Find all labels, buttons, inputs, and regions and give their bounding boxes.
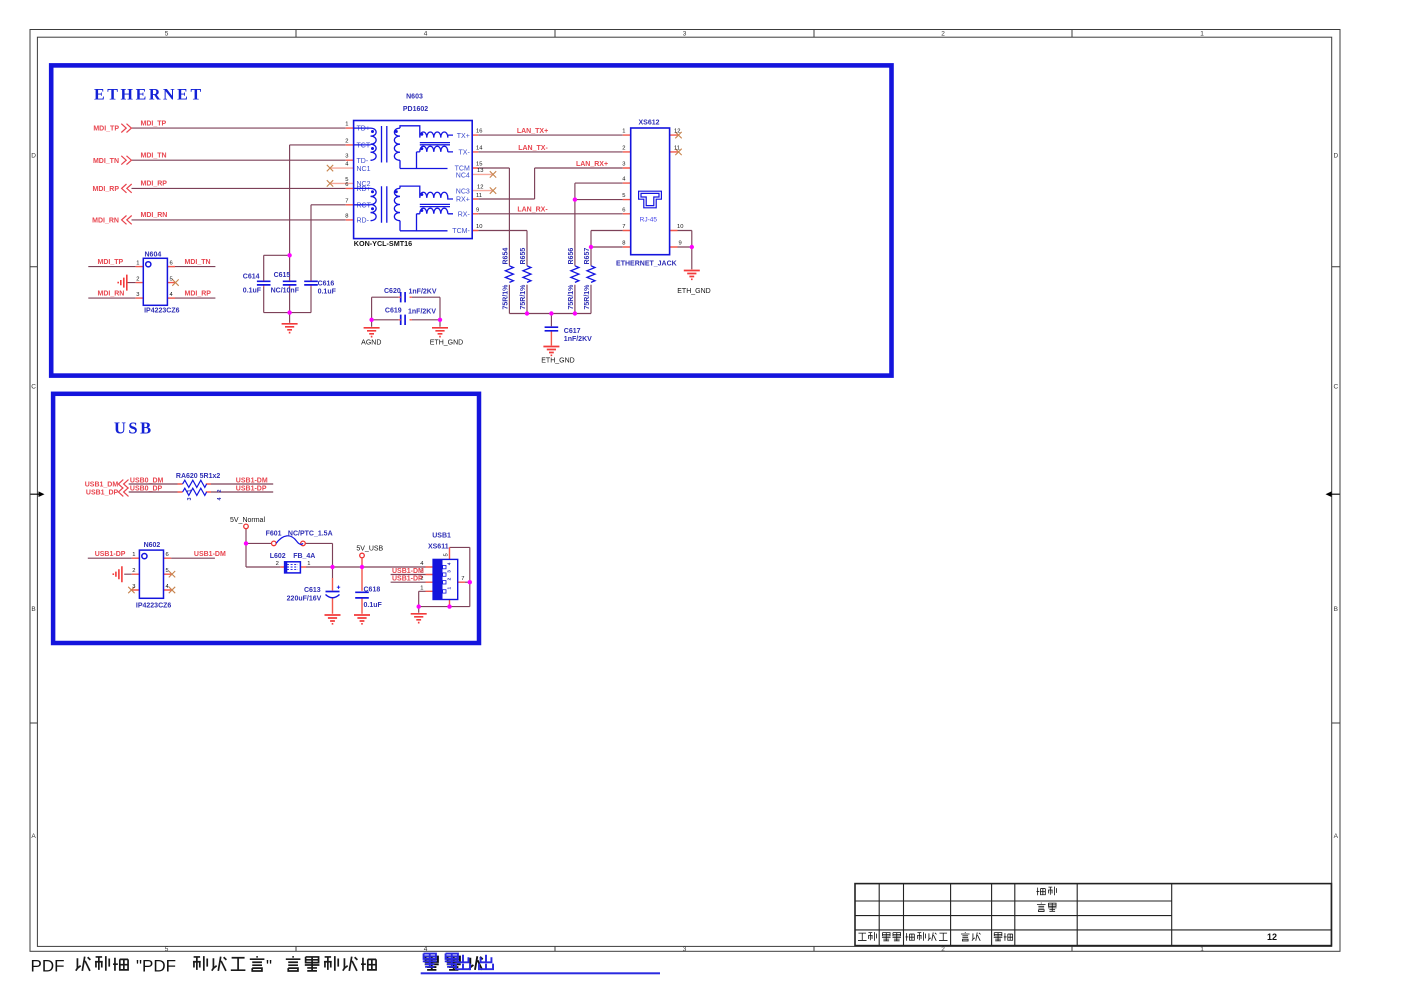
svg-text:1: 1 xyxy=(420,585,423,591)
svg-text:5: 5 xyxy=(170,276,173,282)
svg-text:D: D xyxy=(1333,153,1338,160)
svg-text:1: 1 xyxy=(1200,946,1204,953)
svg-text:1: 1 xyxy=(1200,31,1204,38)
svg-text:1: 1 xyxy=(447,587,453,590)
svg-text:75R/1%: 75R/1% xyxy=(520,284,527,310)
svg-text:C615: C615 xyxy=(274,272,291,279)
svg-text:RJ-45: RJ-45 xyxy=(640,216,658,223)
svg-text:0.1uF: 0.1uF xyxy=(318,288,337,295)
svg-text:TX-: TX- xyxy=(459,150,471,157)
svg-text:1nF/2KV: 1nF/2KV xyxy=(564,336,592,343)
svg-text:USB1-DM: USB1-DM xyxy=(236,478,268,485)
svg-text:2: 2 xyxy=(345,138,348,144)
svg-text:MDI_RN: MDI_RN xyxy=(141,212,168,219)
svg-text:ETH_GND: ETH_GND xyxy=(677,288,710,295)
svg-text:ETH_GND: ETH_GND xyxy=(430,339,463,346)
svg-text:1: 1 xyxy=(187,490,193,493)
svg-text:USB1-DP: USB1-DP xyxy=(236,486,267,493)
svg-text:C614: C614 xyxy=(243,274,260,281)
svg-text:RA620 5R1x2: RA620 5R1x2 xyxy=(176,473,220,480)
svg-text:75R/1%: 75R/1% xyxy=(584,284,591,310)
svg-text:A: A xyxy=(31,833,36,840)
svg-text:L602: L602 xyxy=(270,553,286,560)
svg-text:TX+: TX+ xyxy=(457,133,470,140)
svg-text:C: C xyxy=(31,384,36,391)
svg-text:PDF: PDF xyxy=(31,957,65,976)
svg-text:5: 5 xyxy=(165,946,169,953)
svg-text:C620: C620 xyxy=(384,288,401,295)
svg-text:AGND: AGND xyxy=(361,339,381,346)
svg-text:13: 13 xyxy=(477,168,483,174)
svg-text:MDI_RP: MDI_RP xyxy=(141,181,168,188)
svg-text:R656: R656 xyxy=(568,248,575,265)
svg-text:IP4223CZ6: IP4223CZ6 xyxy=(144,307,180,314)
svg-text:10: 10 xyxy=(476,224,482,230)
svg-text:9: 9 xyxy=(476,207,479,213)
svg-text:FB_4A: FB_4A xyxy=(293,553,315,560)
svg-text:16: 16 xyxy=(476,129,482,135)
svg-text:2: 2 xyxy=(941,31,945,38)
svg-text:LAN_TX-: LAN_TX- xyxy=(518,145,548,152)
svg-text:8: 8 xyxy=(345,213,348,219)
svg-text:C617: C617 xyxy=(564,328,581,335)
svg-text:USB0_DP: USB0_DP xyxy=(130,486,163,493)
svg-text:1nF/2KV: 1nF/2KV xyxy=(409,288,437,295)
svg-text:C: C xyxy=(1333,384,1338,391)
svg-text:15: 15 xyxy=(476,162,482,168)
svg-text:6: 6 xyxy=(170,260,173,266)
svg-text:USB1-DM: USB1-DM xyxy=(194,551,226,558)
svg-text:ETHERNET: ETHERNET xyxy=(94,87,204,104)
svg-text:RX-: RX- xyxy=(458,212,471,219)
svg-text:TCM-: TCM- xyxy=(452,228,470,235)
svg-text:7: 7 xyxy=(345,198,348,204)
svg-text:RD-: RD- xyxy=(357,218,370,225)
svg-text:IP4223CZ6: IP4223CZ6 xyxy=(136,603,172,610)
svg-text:USB1_DP: USB1_DP xyxy=(86,490,119,497)
svg-text:F601: F601 xyxy=(266,531,282,538)
svg-text:XS612: XS612 xyxy=(639,119,660,126)
svg-text:NC/10nF: NC/10nF xyxy=(271,287,300,294)
svg-text:A: A xyxy=(1334,833,1339,840)
svg-text:12: 12 xyxy=(477,184,483,190)
svg-text:R655: R655 xyxy=(520,248,527,265)
svg-text:2: 2 xyxy=(136,276,139,282)
svg-text:USB: USB xyxy=(114,419,154,438)
svg-text:1: 1 xyxy=(345,122,348,128)
svg-text:LAN_TX+: LAN_TX+ xyxy=(517,128,548,135)
svg-text:": " xyxy=(266,957,272,976)
svg-text:2: 2 xyxy=(447,577,453,580)
svg-text:2: 2 xyxy=(217,490,223,493)
svg-text:1: 1 xyxy=(622,129,625,135)
svg-text:N602: N602 xyxy=(144,542,161,549)
svg-text:4: 4 xyxy=(447,562,453,565)
svg-text:MDI_TN: MDI_TN xyxy=(141,152,167,159)
svg-text:3: 3 xyxy=(345,154,348,160)
svg-text:5: 5 xyxy=(166,568,169,574)
svg-text:5: 5 xyxy=(165,31,169,38)
svg-text:11: 11 xyxy=(674,145,680,151)
svg-text:75R/1%: 75R/1% xyxy=(568,284,575,310)
svg-text:MDI_RN: MDI_RN xyxy=(98,291,125,298)
svg-text:PD1602: PD1602 xyxy=(403,106,428,113)
svg-text:XS611: XS611 xyxy=(428,544,449,551)
svg-text:14: 14 xyxy=(476,145,483,151)
svg-text:NC4: NC4 xyxy=(456,173,470,180)
svg-text:TCT: TCT xyxy=(357,142,371,149)
svg-text:5V_Normal: 5V_Normal xyxy=(230,517,265,524)
svg-text:USB1_DM: USB1_DM xyxy=(85,481,119,488)
svg-text:MDI_TP: MDI_TP xyxy=(98,259,124,266)
svg-text:3: 3 xyxy=(683,31,687,38)
svg-text:B: B xyxy=(1334,606,1338,613)
svg-text:NC3: NC3 xyxy=(456,188,470,195)
svg-text:2: 2 xyxy=(941,946,945,953)
svg-text:KON-YCL-SMT16: KON-YCL-SMT16 xyxy=(354,239,412,248)
svg-text:D: D xyxy=(31,153,36,160)
svg-text:6: 6 xyxy=(345,182,348,188)
svg-text:5: 5 xyxy=(444,553,450,556)
svg-text:C618: C618 xyxy=(364,586,381,593)
svg-text:3: 3 xyxy=(447,570,453,573)
svg-text:3: 3 xyxy=(187,498,193,501)
svg-text:RD+: RD+ xyxy=(357,186,371,193)
svg-text:R654: R654 xyxy=(503,248,510,265)
svg-text:USB0_DM: USB0_DM xyxy=(130,478,164,485)
svg-text:0.1uF: 0.1uF xyxy=(364,602,383,609)
svg-text:NC/PTC_1.5A: NC/PTC_1.5A xyxy=(288,531,333,538)
svg-text:11: 11 xyxy=(476,193,482,199)
svg-text:4: 4 xyxy=(424,31,428,38)
svg-text:10: 10 xyxy=(677,224,683,230)
svg-text:TD-: TD- xyxy=(357,158,369,165)
svg-text:RX+: RX+ xyxy=(456,197,470,204)
svg-text:3: 3 xyxy=(136,292,139,298)
svg-text:8: 8 xyxy=(622,241,625,247)
svg-text:C619: C619 xyxy=(385,307,402,314)
svg-text:75R/1%: 75R/1% xyxy=(503,284,510,310)
svg-text:6: 6 xyxy=(166,552,169,558)
svg-text:12: 12 xyxy=(1267,932,1277,942)
svg-text:MDI_TP: MDI_TP xyxy=(141,120,167,127)
svg-text:LAN_RX-: LAN_RX- xyxy=(517,207,548,214)
svg-text:C616: C616 xyxy=(318,281,335,288)
svg-text:"PDF: "PDF xyxy=(136,957,176,976)
svg-text:RCT: RCT xyxy=(357,203,372,210)
svg-text:R657: R657 xyxy=(584,248,591,265)
svg-text:6: 6 xyxy=(622,207,625,213)
svg-text:3: 3 xyxy=(683,946,687,953)
svg-text:C613: C613 xyxy=(304,587,321,594)
svg-text:9: 9 xyxy=(679,241,682,247)
svg-text:TD+: TD+ xyxy=(357,126,370,133)
svg-text:MDI_RN: MDI_RN xyxy=(92,218,119,225)
svg-text:MDI_TN: MDI_TN xyxy=(185,259,211,266)
svg-text:USB1: USB1 xyxy=(432,533,451,540)
svg-text:3: 3 xyxy=(622,162,625,168)
svg-text:4: 4 xyxy=(217,498,223,501)
svg-text:B: B xyxy=(31,606,35,613)
svg-text:N604: N604 xyxy=(145,252,162,259)
svg-text:1nF/2KV: 1nF/2KV xyxy=(408,309,436,316)
svg-text:1: 1 xyxy=(132,552,135,558)
svg-text:220uF/16V: 220uF/16V xyxy=(287,595,322,602)
svg-text:12: 12 xyxy=(674,129,680,135)
svg-text:ETH_GND: ETH_GND xyxy=(541,358,574,365)
svg-text:MDI_TP: MDI_TP xyxy=(93,126,119,133)
svg-text:MDI_RP: MDI_RP xyxy=(185,291,212,298)
svg-text:1: 1 xyxy=(307,561,310,567)
svg-text:5V_USB: 5V_USB xyxy=(356,545,383,552)
svg-text:NC1: NC1 xyxy=(357,166,371,173)
svg-text:ETHERNET_JACK: ETHERNET_JACK xyxy=(616,260,677,267)
svg-text:N603: N603 xyxy=(406,93,423,100)
svg-text:1: 1 xyxy=(136,260,139,266)
svg-text:MDI_TN: MDI_TN xyxy=(93,158,119,165)
svg-text:USB1-DM: USB1-DM xyxy=(392,568,424,575)
svg-text:USB1-DP: USB1-DP xyxy=(95,551,126,558)
svg-text:5: 5 xyxy=(622,193,625,199)
svg-text:7: 7 xyxy=(461,576,464,582)
svg-text:MDI_RP: MDI_RP xyxy=(93,186,120,193)
svg-text:USB1-DP: USB1-DP xyxy=(392,576,423,583)
svg-text:2: 2 xyxy=(622,145,625,151)
svg-text:2: 2 xyxy=(132,568,135,574)
svg-text:LAN_RX+: LAN_RX+ xyxy=(576,161,608,168)
svg-text:0.1uF: 0.1uF xyxy=(243,287,262,294)
svg-text:7: 7 xyxy=(622,224,625,230)
svg-text:3: 3 xyxy=(132,584,135,590)
svg-text:2: 2 xyxy=(276,561,279,567)
svg-text:4: 4 xyxy=(424,946,428,953)
